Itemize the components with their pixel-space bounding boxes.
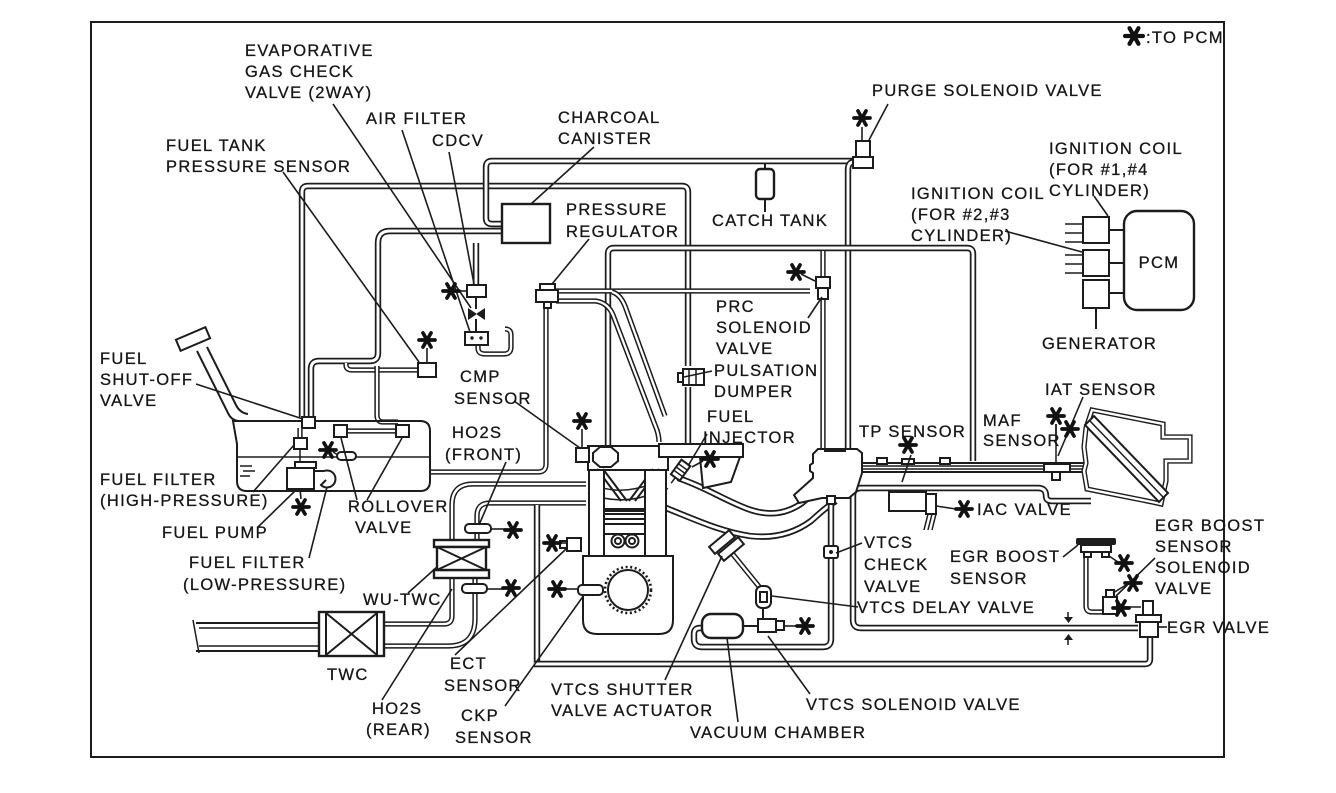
- intake elbow below rail: [700, 457, 740, 488]
- VTCS delay valve: [756, 586, 771, 608]
- leader EGR boost sensor: [1063, 545, 1078, 557]
- stem ECT asterisk: [559, 542, 567, 544]
- fuel shut-off valve: [302, 417, 315, 428]
- MAF sensor element: [1055, 424, 1057, 463]
- svg-text:HO2S: HO2S: [372, 700, 422, 718]
- wire: intake runner lower S-curve: [666, 501, 836, 537]
- svg-text:SENSOR: SENSOR: [950, 570, 1028, 588]
- leader fuel pump: [258, 489, 297, 527]
- stem IAC asterisk: [936, 506, 956, 509]
- wire: canister bottom to CDCV: [473, 243, 479, 286]
- leader VTCS check valve: [836, 543, 862, 553]
- svg-text:CDCV: CDCV: [432, 132, 484, 150]
- svg-text:FUEL TANK: FUEL TANK: [166, 137, 267, 155]
- stem MAF asterisk: [1055, 424, 1057, 440]
- svg-text:VALVE: VALVE: [864, 578, 922, 596]
- wire: intake runner upper S-curve: [678, 478, 808, 513]
- asterisk tank pressure sensor: [419, 333, 435, 347]
- leader pressure regulator: [552, 239, 589, 284]
- leader VTCS delay valve: [772, 596, 858, 607]
- svg-text:VTCS SHUTTER: VTCS SHUTTER: [551, 681, 694, 699]
- svg-text:FUEL PUMP: FUEL PUMP: [162, 524, 268, 542]
- asterisk IAC: [956, 502, 972, 516]
- svg-text:(FOR #2,#3: (FOR #2,#3: [911, 206, 1011, 224]
- svg-text:PRESSURE SENSOR: PRESSURE SENSOR: [166, 158, 351, 176]
- svg-text:INJECTOR: INJECTOR: [703, 429, 796, 447]
- cylinder wall left: [589, 470, 604, 562]
- leader fuel filter high-pressure: [253, 445, 294, 492]
- HO2S rear sensor: [462, 584, 487, 593]
- wire: WU-TWC to TWC inner wall: [384, 578, 452, 624]
- svg-text:FUEL FILTER: FUEL FILTER: [100, 471, 217, 489]
- rollover valve 2: [396, 425, 409, 437]
- charcoal canister: [502, 204, 550, 243]
- tube notches: [877, 458, 887, 464]
- fuel tank body: [233, 421, 430, 491]
- asterisk HO2S front: [505, 523, 521, 537]
- svg-text:CHECK: CHECK: [864, 556, 929, 574]
- leader purge solenoid valve: [869, 104, 888, 140]
- fuel rail: [659, 444, 743, 457]
- svg-text:SENSOR: SENSOR: [983, 432, 1061, 450]
- svg-text:CKP: CKP: [461, 707, 499, 725]
- leader HO2S front: [479, 462, 506, 525]
- leader CKP sensor: [505, 595, 584, 706]
- svg-text:HO2S: HO2S: [452, 424, 502, 442]
- svg-text:DUMPER: DUMPER: [714, 383, 794, 401]
- fuel pump: [295, 462, 316, 468]
- asterisk CMP: [574, 414, 590, 428]
- leader CDCV: [449, 152, 474, 284]
- EGR boost sensor solenoid valve: [1103, 597, 1117, 614]
- asterisk fuel sender: [320, 443, 336, 457]
- asterisk EGR boost: [1116, 556, 1132, 570]
- svg-text:MAF: MAF: [983, 412, 1022, 430]
- stem purge asterisk: [861, 127, 863, 141]
- leader ignition coil 1-4: [1094, 196, 1108, 216]
- svg-text:SENSOR: SENSOR: [1155, 538, 1233, 556]
- wire: vacuum chamber to solenoid: [743, 625, 783, 627]
- svg-text:VTCS DELAY VALVE: VTCS DELAY VALVE: [857, 599, 1035, 617]
- PRC solenoid valve: [816, 277, 830, 288]
- svg-text:FUEL FILTER: FUEL FILTER: [189, 554, 306, 572]
- flow arrows on EGR pipe: [1064, 617, 1073, 640]
- leader fuel filter low-pressure: [309, 487, 327, 558]
- svg-text:ECT: ECT: [450, 655, 487, 673]
- svg-text:PRC: PRC: [716, 298, 755, 316]
- leader VTCS solenoid valve: [768, 636, 810, 694]
- svg-text:VTCS SOLENOID VALVE: VTCS SOLENOID VALVE: [806, 696, 1021, 714]
- wire: butterfly to VTCS delay valve diagonal: [731, 552, 761, 589]
- frame border: [91, 22, 1224, 757]
- fuel filler cap: [176, 327, 210, 351]
- crank gear: [608, 570, 648, 610]
- wire: fuel return hose diagonal (lower): [612, 292, 665, 416]
- stem tank pressure sensor asterisk: [426, 348, 428, 363]
- svg-text:(HIGH-PRESSURE): (HIGH-PRESSURE): [100, 492, 269, 510]
- asterisk PRC: [788, 265, 804, 279]
- fuel filter (high-pressure): [294, 438, 307, 449]
- cylinder wall right: [645, 470, 666, 562]
- wire: exhaust passage inner wall (engine to WU-TWC): [477, 503, 586, 543]
- wire: fuel hose diagonal to fuel rail (upper): [556, 301, 659, 442]
- svg-text:VALVE: VALVE: [355, 519, 413, 537]
- svg-text:AIR FILTER: AIR FILTER: [366, 110, 467, 128]
- wire: branch to fuel tank pressure sensor: [346, 363, 418, 370]
- svg-text:VALVE: VALVE: [1155, 580, 1213, 598]
- stem CMP asterisk: [581, 429, 583, 447]
- asterisk CDCV: [443, 284, 459, 298]
- svg-text:IAC VALVE: IAC VALVE: [977, 501, 1072, 519]
- wire: exhaust front pipe double wall: [196, 623, 320, 651]
- stem HO2S front asterisk: [491, 528, 505, 530]
- wire: fuel line below pulsation dumper to fuel rail: [685, 387, 691, 444]
- wire: canister top to catch tank / purge valve line: [486, 161, 862, 224]
- leader HO2S rear: [382, 589, 452, 700]
- svg-text:EGR BOOST: EGR BOOST: [1155, 517, 1265, 535]
- svg-text:ROLLOVER: ROLLOVER: [348, 498, 449, 516]
- HO2S front sensor: [465, 524, 491, 533]
- IAC valve: [889, 492, 926, 511]
- wire: PRC valve hanger from EGR pipe: [820, 251, 825, 276]
- asterisk HO2S rear: [503, 581, 519, 595]
- leader ECT sensor: [455, 549, 566, 655]
- evaporative gas check valve (2way) bowtie: [468, 308, 485, 320]
- svg-text:SOLENOID: SOLENOID: [716, 319, 812, 337]
- leader fuel injector: [688, 434, 707, 466]
- air cleaner filter diagonal: [1085, 416, 1168, 502]
- wire: air filter J vent pipe: [478, 329, 511, 354]
- pressure regulator: [540, 284, 555, 291]
- svg-text:FUEL: FUEL: [707, 408, 755, 426]
- wire: long bottom pipe to EGR valve stem: [534, 637, 1150, 664]
- CMP sensor: [576, 448, 589, 462]
- asterisk fuel pump: [293, 500, 309, 514]
- svg-text:IGNITION COIL: IGNITION COIL: [1049, 140, 1183, 158]
- leader rollover valve left: [341, 438, 357, 500]
- asterisk VTCS solenoid: [797, 619, 813, 633]
- asterisk IAT upper: [1048, 409, 1064, 423]
- svg-text:IGNITION COIL: IGNITION COIL: [911, 185, 1045, 203]
- leader ignition coil 2-3: [1005, 231, 1082, 252]
- svg-text:FUEL: FUEL: [100, 350, 148, 368]
- wire: evap pipe charcoal canister to fuel tank: [311, 231, 502, 416]
- purge solenoid valve: [856, 141, 870, 158]
- leader EGR boost sensor solenoid valve: [1116, 558, 1155, 596]
- generator: [1083, 280, 1109, 308]
- stem PRC asterisk: [801, 274, 815, 281]
- svg-text:SOLENOID: SOLENOID: [1155, 559, 1251, 577]
- svg-text:REGULATOR: REGULATOR: [566, 223, 679, 241]
- wire: tank internal fuel pipe: [297, 428, 302, 440]
- ignition coil U2 (#2,#3): [1083, 250, 1109, 276]
- wire: branch down to rollover valve: [377, 366, 398, 422]
- svg-text:CYLINDER): CYLINDER): [911, 227, 1012, 245]
- svg-text:WU-TWC: WU-TWC: [363, 591, 442, 609]
- stem solenoid asterisk lower to EGR nipple: [1117, 606, 1141, 608]
- svg-text:CATCH TANK: CATCH TANK: [712, 212, 828, 230]
- VTCS solenoid valve: [758, 619, 776, 632]
- ignition coil U1 (#1,#4): [1083, 217, 1109, 243]
- svg-text:(FOR #1,#4: (FOR #1,#4: [1049, 161, 1149, 179]
- wire: EGR pipe big rectangle (to TP region): [608, 248, 973, 461]
- fuel sender pill: [337, 452, 356, 460]
- leader PRC solenoid valve: [808, 297, 822, 318]
- asterisk CKP: [549, 582, 565, 596]
- svg-text:GAS CHECK: GAS CHECK: [245, 63, 354, 81]
- svg-text:VALVE (2WAY): VALVE (2WAY): [245, 84, 372, 102]
- svg-text:EVAPORATIVE: EVAPORATIVE: [245, 42, 374, 60]
- EGR boost sensor: [1076, 538, 1116, 545]
- stem sender asterisk: [333, 452, 338, 455]
- VTCS shutter valve actuator butterfly: [709, 530, 735, 554]
- wire: pressure regulator to PRC solenoid valve: [556, 288, 810, 293]
- leader air filter: [402, 130, 470, 332]
- engine cylinder head: [588, 446, 668, 470]
- wire: delay valve to solenoid valve: [762, 607, 764, 621]
- stem EGR boost asterisk: [1109, 556, 1118, 562]
- EGR valve: [1143, 601, 1153, 615]
- air cleaner body: [1084, 410, 1190, 504]
- stem solenoid asterisk upper: [1113, 585, 1126, 593]
- stem CDCV asterisk: [458, 290, 467, 292]
- vacuum chamber: [702, 614, 743, 638]
- fuel filter (low-pressure): [315, 470, 335, 487]
- wire: EGR boost sensor stem: [1086, 556, 1103, 612]
- leader fuel shut-off valve: [196, 384, 303, 419]
- asterisk ECT: [544, 536, 560, 550]
- leader WU-TWC: [408, 567, 437, 593]
- leader CMP sensor: [514, 401, 580, 448]
- wire: rollover valve connecting pipe: [347, 428, 396, 433]
- wire: VTCS check valve vacuum line with vacuum chamber loop: [694, 492, 831, 647]
- WU-TWC: [434, 540, 489, 547]
- svg-text:(LOW-PRESSURE): (LOW-PRESSURE): [183, 576, 346, 594]
- TWC: [319, 612, 384, 656]
- asterisk purge: [854, 111, 870, 125]
- leader fuel tank pressure sensor: [283, 172, 419, 362]
- wire: purge solenoid down line to throttle body: [848, 162, 864, 452]
- svg-text:VALVE: VALVE: [100, 392, 158, 410]
- ECT sensor: [567, 538, 581, 551]
- combustion swirl curves: [588, 483, 668, 500]
- svg-text:PULSATION: PULSATION: [714, 362, 818, 380]
- svg-text::TO PCM: :TO PCM: [1146, 29, 1224, 47]
- wire: WU-TWC to TWC outer wall: [384, 578, 475, 646]
- leader rollover valve right: [367, 438, 402, 500]
- throttle body plenum: [794, 449, 862, 503]
- wire: fuel feed big loop (tank to fuel rail, top-left rectangle): [302, 186, 688, 417]
- svg-text:(FRONT): (FRONT): [445, 446, 522, 464]
- leader evaporative gas check valve: [333, 104, 471, 308]
- svg-text:SENSOR: SENSOR: [444, 677, 522, 695]
- asterisk TP: [900, 438, 916, 452]
- wire: CDCV to check valve to air filter: [475, 297, 477, 333]
- leader charcoal canister: [531, 147, 594, 204]
- svg-text:EGR BOOST: EGR BOOST: [950, 548, 1060, 566]
- svg-text:SHUT-OFF: SHUT-OFF: [100, 371, 193, 389]
- leader EGR valve: [1159, 626, 1167, 628]
- PCM: [1124, 211, 1194, 310]
- CDCV: [467, 285, 486, 297]
- asterisk injector: [702, 452, 718, 466]
- stem CKP asterisk: [564, 588, 578, 590]
- svg-text:TWC: TWC: [327, 666, 369, 684]
- stem HO2S rear asterisk: [487, 588, 503, 590]
- svg-text:(REAR): (REAR): [366, 721, 431, 739]
- wire: fuel return line tank to pressure regulator: [430, 307, 546, 472]
- svg-text:CHARCOAL: CHARCOAL: [558, 109, 661, 127]
- svg-text:VTCS: VTCS: [864, 534, 913, 552]
- svg-text:VALVE: VALVE: [716, 340, 774, 358]
- asterisk IAT lower: [1062, 422, 1078, 436]
- air filter: [465, 332, 488, 345]
- leader TP sensor: [902, 455, 911, 482]
- rollover valve 1: [334, 425, 347, 437]
- svg-text:VALVE ACTUATOR: VALVE ACTUATOR: [551, 702, 714, 720]
- svg-text:SENSOR: SENSOR: [454, 390, 532, 408]
- CKP sensor: [578, 585, 603, 595]
- leader IAT sensor: [1058, 397, 1083, 456]
- piston: [604, 514, 645, 534]
- svg-text:SENSOR: SENSOR: [455, 729, 533, 747]
- intake valves V lines: [597, 469, 659, 501]
- stem VTCS solenoid asterisk: [784, 625, 797, 627]
- svg-text:VACUUM CHAMBER: VACUUM CHAMBER: [690, 724, 866, 742]
- engine block / oil pan: [583, 556, 673, 634]
- svg-text:PRESSURE: PRESSURE: [566, 201, 668, 219]
- asterisk solenoid upper: [1125, 576, 1141, 590]
- wire: PRC valve down to intake plenum: [820, 299, 825, 452]
- fuel injector: [667, 460, 691, 487]
- svg-text:CANISTER: CANISTER: [558, 130, 652, 148]
- wire: tube lower inner lines: [858, 466, 1085, 469]
- VTCS check valve: [824, 546, 838, 558]
- svg-text:TP SENSOR: TP SENSOR: [859, 423, 966, 441]
- pulsation dumper: [678, 373, 684, 382]
- catch tank: [764, 163, 766, 212]
- wire: intake tube throttle to air cleaner: [856, 463, 1086, 472]
- leader vacuum chamber: [727, 638, 738, 722]
- wire: exhaust passage outer wall (engine to WU-TWC): [452, 484, 586, 543]
- asterisk solenoid lower: [1113, 601, 1129, 615]
- stem pump asterisk: [300, 489, 301, 499]
- stem injector asterisk: [692, 461, 703, 467]
- svg-text:CYLINDER): CYLINDER): [1049, 182, 1150, 200]
- wire: VTCS loop from air cleaner bottom to EGR pipe: [853, 488, 1138, 628]
- leader VTCS shutter valve actuator: [665, 556, 722, 680]
- svg-text:IAT SENSOR: IAT SENSOR: [1045, 381, 1157, 399]
- to-PCM legend asterisk: [1125, 28, 1143, 44]
- svg-text:PCM: PCM: [1139, 254, 1180, 272]
- svg-text:PURGE SOLENOID VALVE: PURGE SOLENOID VALVE: [872, 82, 1103, 100]
- fuel filler neck: [197, 347, 248, 421]
- fuel tank pressure sensor: [418, 363, 436, 377]
- wire: engine box left edge: [534, 505, 540, 664]
- leader pulsation dumper: [684, 371, 712, 377]
- svg-text:GENERATOR: GENERATOR: [1042, 335, 1157, 353]
- svg-text:CMP: CMP: [460, 368, 501, 386]
- svg-text:EGR VALVE: EGR VALVE: [1167, 619, 1270, 637]
